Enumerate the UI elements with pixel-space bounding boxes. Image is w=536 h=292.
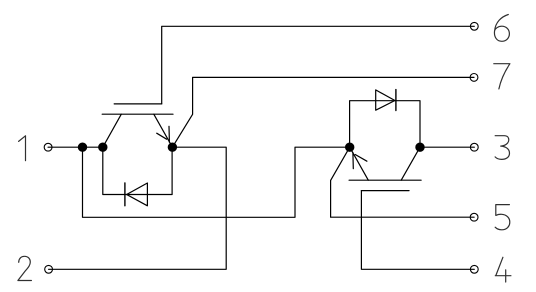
terminal 2: [45, 265, 53, 273]
IGBT Q2 emitter leg: [350, 147, 369, 180]
terminal 6: [470, 22, 478, 30]
diode D1 triangle: [127, 183, 148, 206]
diode D1 loop wire: [103, 147, 172, 194]
node A (junction dot, midpoint rail): [78, 143, 87, 152]
node C (junction dot, Q1 emitter): [168, 143, 177, 152]
label 7: [494, 64, 510, 89]
IGBT Q2 gate lead: [361, 190, 409, 192]
terminal 4: [470, 265, 478, 273]
terminal 7: [470, 74, 478, 82]
diode D2 triangle: [376, 90, 395, 110]
wire Q1 aux emitter to terminal 7: [172, 77, 474, 147]
wire Q2 gate to terminal 4: [361, 191, 474, 270]
node E (junction dot, Q2 collector): [415, 143, 424, 152]
label 6: [494, 15, 509, 42]
wire terminal1 to node A: [48, 146, 103, 148]
terminal 1: [44, 143, 52, 151]
IGBT Q1 collector leg: [103, 114, 122, 147]
IGBT Q2 collector leg: [401, 147, 420, 180]
label 4: [495, 257, 511, 282]
wire node A to Q2 emitter (midpoint link): [83, 147, 350, 217]
terminal 3: [470, 143, 478, 151]
label 1: [19, 136, 26, 161]
IGBT Q1 body bar: [102, 113, 173, 115]
IGBT Q1 emitter arrow: [157, 126, 170, 142]
IGBT Q1 gate lead: [114, 103, 162, 105]
IGBT Q1 emitter leg: [154, 114, 173, 147]
wire Q1 emitter to terminal 2: [49, 147, 227, 269]
wire Q2 aux emitter to terminal 5: [331, 147, 475, 217]
terminal 5: [470, 213, 478, 221]
label 3: [495, 136, 509, 160]
diode D2 loop wire: [350, 101, 420, 148]
label 2: [18, 256, 32, 280]
label 5: [495, 205, 510, 230]
node B (junction dot, Q1 collector): [98, 143, 107, 152]
node D (junction dot, Q2 emitter): [345, 143, 354, 152]
wire Q2 collector to terminal 3: [420, 146, 474, 148]
diode D1 cathode bar: [124, 183, 126, 206]
wire Q1 gate to terminal 6: [162, 26, 475, 104]
IGBT Q2 emitter arrow: [353, 153, 367, 169]
IGBT Q2 body bar: [349, 179, 421, 181]
diode D2 cathode bar: [395, 90, 397, 111]
